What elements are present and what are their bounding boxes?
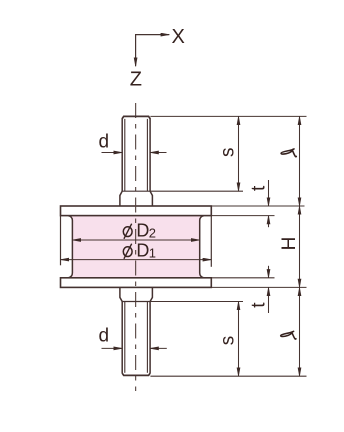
dimension phi-D2 (72, 239, 199, 241)
rubber right profile (200, 216, 204, 278)
label ell bottom (281, 331, 296, 339)
extension line thread start bottom (150, 301, 243, 303)
dimension ell top (299, 116, 301, 206)
svg-text:1: 1 (149, 245, 156, 260)
rubber left profile (68, 216, 72, 278)
svg-text:D: D (136, 220, 149, 240)
dimension ell bottom (299, 287, 301, 376)
svg-text:H: H (279, 237, 300, 251)
svg-text:d: d (99, 325, 110, 346)
extension line lower flange bottom edge (211, 286, 306, 288)
svg-text:D: D (136, 240, 149, 260)
dimension d top (102, 152, 167, 154)
extension line flange top edge (211, 205, 304, 207)
axis X arrow (136, 35, 170, 67)
label phi-D1 (123, 244, 132, 259)
top flange plate (61, 206, 212, 216)
extension line stud bottom (150, 375, 306, 377)
svg-text:X: X (172, 26, 185, 48)
rubber body fill (68, 216, 204, 278)
top stud (120, 116, 152, 206)
dimension s bottom (238, 302, 240, 377)
dimension d bottom (102, 347, 167, 349)
svg-text:Z: Z (130, 69, 142, 91)
extension line stud top (150, 115, 306, 117)
svg-text:t: t (248, 185, 269, 191)
phi-D1 extension line left (60, 216, 62, 266)
bottom flange plate (61, 278, 212, 288)
label ell top (281, 149, 296, 157)
dimension H (299, 206, 301, 287)
phi-D1 extension line right (210, 216, 212, 267)
extension line thread end top (150, 190, 243, 192)
svg-text:s: s (218, 336, 239, 346)
dimension t bottom (268, 266, 270, 313)
label phi-D2 (123, 224, 132, 239)
extension line flange bottom edge (211, 215, 274, 217)
svg-text:t: t (248, 302, 269, 308)
extension line lower flange top edge (211, 277, 274, 279)
dimension phi-D1 (61, 259, 212, 261)
svg-text:2: 2 (149, 225, 156, 240)
svg-text:d: d (99, 132, 110, 153)
bottom stud (120, 287, 152, 375)
dimension s top (238, 116, 240, 191)
svg-text:s: s (218, 148, 239, 158)
dimension t top (268, 180, 270, 227)
centerline (135, 103, 137, 391)
